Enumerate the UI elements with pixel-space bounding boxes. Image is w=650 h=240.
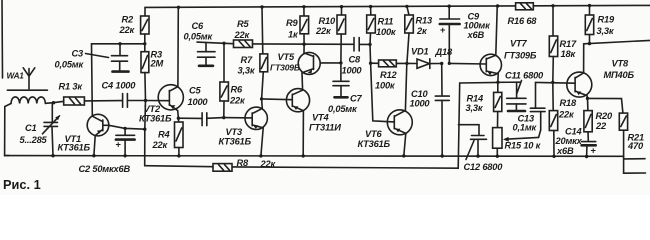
node R6 bottom / VT3 base (222, 116, 225, 119)
svg-text:R20: R20 (596, 111, 613, 121)
node R19 bottom on second rail (588, 42, 591, 45)
svg-text:ГТ309Б: ГТ309Б (270, 63, 300, 73)
node C6/R6/R5 (222, 42, 225, 45)
node R7 bottom / VT4 base / VT3 collector (260, 97, 263, 100)
resistor R2 22k (141, 16, 149, 34)
node R19 on top rail (588, 4, 591, 7)
svg-text:R17: R17 (560, 39, 577, 49)
svg-text:R14: R14 (467, 94, 484, 104)
svg-text:20мкх: 20мкх (555, 136, 583, 146)
node VT5 base / R10 / C7 (339, 61, 342, 64)
resistor R1 3k (horizontal) (64, 97, 85, 105)
node C10 top (440, 62, 443, 65)
node C1 bottom on rail (51, 154, 54, 157)
antenna WA1 (23, 68, 35, 76)
bottom common rail (5, 155, 624, 158)
node VT3 emitter on rail (259, 154, 262, 157)
resistor R19 3,3k (589, 6, 591, 15)
capacitor C12 6800 (458, 125, 479, 135)
svg-text:3,3к: 3,3к (466, 103, 484, 113)
node C10 bottom on rail (441, 154, 444, 157)
capacitor C5 1000 (series) (178, 117, 201, 119)
svg-text:R18: R18 (560, 98, 577, 108)
svg-text:R19: R19 (598, 15, 615, 25)
svg-text:R7: R7 (241, 55, 254, 65)
resistor R3 2M (141, 52, 149, 73)
wire VT4 base (262, 98, 293, 101)
node R7 column on top rail (260, 5, 263, 8)
transistor VT2 KT361B (158, 85, 183, 110)
svg-text:R13: R13 (416, 16, 433, 26)
resistor R4 22k (178, 118, 180, 122)
node R13 on top rail (405, 5, 408, 8)
svg-text:КТ361Б: КТ361Б (58, 143, 91, 153)
node VT2 emitter (177, 117, 180, 120)
node C2 bottom on rail (123, 154, 126, 157)
resistor R8 22k (horizontal) (213, 164, 232, 172)
svg-text:C1: C1 (25, 123, 37, 133)
svg-text:х6В: х6В (556, 146, 574, 156)
node C9 on top rail (448, 5, 451, 8)
svg-text:+: + (440, 25, 446, 35)
svg-text:2М: 2М (150, 59, 164, 69)
wire feedback up to VT2 base node (144, 101, 147, 166)
node C1 top (52, 101, 55, 104)
svg-text:22к: 22к (119, 25, 136, 35)
capacitor C14 20mk x 6V (582, 141, 596, 143)
svg-text:R6: R6 (231, 85, 244, 95)
diode VD1 D18 (407, 62, 417, 64)
node C2 tap (123, 127, 126, 130)
capacitor C13 0,1mk (series to VT8 base) (535, 82, 537, 107)
svg-text:х6В: х6В (467, 30, 485, 40)
svg-text:R12: R12 (380, 70, 397, 80)
resistor R6 22k (223, 43, 225, 82)
svg-text:2к: 2к (416, 26, 428, 36)
svg-text:R11: R11 (378, 17, 394, 27)
resistor R17 18k (552, 6, 554, 36)
svg-text:МП40Б: МП40Б (604, 70, 635, 80)
node VT1 emitter on rail (92, 154, 95, 157)
svg-text:5...285: 5...285 (20, 135, 48, 145)
svg-text:3,3к: 3,3к (238, 66, 256, 76)
capacitor C11 6800 to chassis (498, 81, 520, 83)
node VT6 base / R12 left (369, 62, 372, 65)
svg-text:VT4: VT4 (312, 113, 329, 123)
svg-text:C6: C6 (192, 21, 205, 31)
resistor R13 2k (407, 6, 409, 15)
capacitor C8 1000 (series) (353, 38, 355, 51)
node R18 bottom on rail (552, 155, 555, 158)
transistor VT3 KT361B (245, 107, 267, 129)
svg-text:КТ361Б: КТ361Б (358, 139, 391, 149)
svg-text:22к: 22к (558, 110, 575, 120)
svg-text:22к: 22к (234, 30, 251, 40)
capacitor C2 50mk x 6V (124, 128, 126, 134)
svg-text:VD1: VD1 (411, 47, 429, 57)
top supply rail (145, 5, 650, 16)
svg-text:ГТ311И: ГТ311И (309, 123, 341, 133)
node C3 on node A (118, 42, 121, 45)
node VT7 collector on top rail (496, 4, 499, 7)
resistor R20 22 (587, 98, 589, 110)
svg-text:R2: R2 (122, 15, 135, 25)
resistor R18 22k (552, 82, 554, 110)
wire R11/C8 down to VT6 base node (369, 44, 372, 63)
transistor VT6 KT361B (387, 110, 412, 135)
svg-text:C4 1000: C4 1000 (102, 81, 137, 91)
node R4 bottom on rail (177, 154, 180, 157)
svg-text:C7: C7 (350, 94, 363, 104)
svg-text:VT8: VT8 (612, 59, 629, 69)
svg-text:R1 3к: R1 3к (59, 82, 84, 92)
svg-text:0,05мк: 0,05мк (55, 60, 85, 70)
transistor VT7 GT309B (480, 54, 501, 75)
wire coil right to R1 (45, 101, 63, 103)
svg-text:100мк: 100мк (464, 21, 492, 31)
output stub lower right (624, 172, 646, 174)
resistor R14 3,3k (497, 82, 499, 92)
node C14 bottom on rail (585, 155, 588, 158)
capacitor C10 1000 (series, vertical) (441, 64, 443, 96)
svg-text:C10: C10 (411, 89, 428, 99)
svg-text:R9: R9 (286, 18, 299, 28)
svg-text:1000: 1000 (410, 99, 431, 109)
svg-text:VT6: VT6 (365, 129, 382, 139)
svg-text:C8: C8 (349, 55, 362, 65)
node R2/R3 on node A (143, 42, 146, 45)
svg-text:22: 22 (595, 121, 607, 131)
svg-text:0,05мк: 0,05мк (328, 104, 358, 114)
svg-text:R8: R8 (237, 158, 250, 168)
resistor R9 1k (303, 7, 305, 16)
node VT4 emitter on rail (302, 154, 305, 157)
node C12 bottom on rail (476, 154, 479, 157)
node VT8 emitter (586, 97, 589, 100)
feedback wire VT7 emitter to left and down (232, 82, 498, 168)
resistor R12 100k (horizontal) (371, 62, 379, 64)
resistor R21 470 (588, 98, 623, 113)
svg-text:R5: R5 (237, 19, 250, 29)
svg-text:22к: 22к (315, 26, 332, 36)
node VT1 base joins feedback column (143, 128, 146, 131)
svg-text:470: 470 (627, 141, 644, 151)
capacitor C7 0,05mk to chassis (340, 63, 342, 81)
svg-text:R15 10 к: R15 10 к (505, 141, 542, 151)
svg-text:100к: 100к (375, 81, 396, 91)
svg-text:1000: 1000 (342, 66, 363, 76)
node R9 on top rail (302, 5, 305, 8)
resistor R7 3,3k (260, 54, 268, 72)
node R17/R18 on VT8 base wire (551, 81, 554, 84)
node R9 bottom / VT5 collector (302, 43, 305, 46)
svg-text:22к: 22к (260, 159, 277, 169)
potentiometer R15 10k (493, 128, 502, 149)
svg-text:ГТ309Б: ГТ309Б (504, 51, 537, 61)
transistor VT4 GT311I (286, 89, 309, 112)
svg-text:КТ361Б: КТ361Б (219, 137, 252, 147)
node R17 on top rail (551, 4, 554, 7)
capacitor C4 1000 (series) (122, 94, 124, 108)
inductor L1 ferrite core line (7, 89, 47, 91)
svg-text:КТ361Б: КТ361Б (139, 114, 172, 124)
svg-text:1000: 1000 (188, 97, 209, 107)
svg-text:VT7: VT7 (510, 39, 527, 49)
svg-text:C5: C5 (189, 86, 202, 96)
capacitor C1 (variable) (51, 103, 53, 122)
svg-text:R4: R4 (158, 130, 171, 140)
svg-text:VT3: VT3 (226, 127, 243, 137)
svg-text:+: + (116, 140, 122, 150)
resistor R11 100k (370, 7, 372, 15)
svg-text:+: + (591, 146, 597, 156)
node VT2 base junction (144, 99, 147, 102)
svg-text:R10: R10 (319, 16, 336, 26)
wire top rail to R7 (crossing) (261, 7, 264, 54)
svg-text:0,1мк: 0,1мк (513, 123, 538, 133)
svg-text:R16 68: R16 68 (508, 16, 538, 26)
capacitor C9 100mk x 6V (448, 6, 450, 18)
svg-text:1к: 1к (288, 30, 299, 40)
node R11 bottom / C8 (368, 43, 371, 46)
svg-text:18к: 18к (561, 49, 577, 59)
svg-text:C11 6800: C11 6800 (505, 71, 544, 81)
output stub upper right (624, 158, 645, 160)
wire VT1 collector drop (91, 44, 94, 114)
svg-text:C12 6800: C12 6800 (464, 162, 504, 172)
resistor R10 22k (341, 7, 343, 15)
svg-text:22к: 22к (229, 96, 246, 106)
node VT7 emitter (496, 81, 499, 84)
transistor VT8 MP40B (567, 72, 592, 97)
wire coil left down to rail (5, 104, 11, 156)
svg-text:C2 50мкх6В: C2 50мкх6В (79, 164, 131, 174)
node VT2 collector on top rail (177, 6, 180, 9)
svg-text:VT5: VT5 (278, 52, 295, 62)
svg-text:C14: C14 (565, 127, 582, 137)
svg-text:100к: 100к (376, 27, 397, 37)
svg-text:Рис. 1: Рис. 1 (3, 177, 41, 192)
node R11 on top rail (369, 5, 372, 8)
transistor VT1 KT361B (87, 114, 109, 136)
resistor R5 22k (horizontal, series) (224, 42, 234, 44)
svg-text:0,05мк: 0,05мк (184, 32, 214, 42)
svg-text:22к: 22к (152, 140, 169, 150)
svg-text:Д18: Д18 (435, 47, 453, 57)
transistor VT5 GT309B (mirrored) (298, 52, 320, 74)
resistor R16 68 (series in top rail) (516, 3, 534, 10)
svg-text:WA1: WA1 (7, 72, 25, 81)
svg-text:C3: C3 (72, 49, 85, 59)
node VT6 emitter on rail (402, 154, 405, 157)
wire VT8 base (536, 81, 576, 84)
node R12 right / R13 / VD1 / VT6 collector (405, 62, 408, 65)
wire R1 to C4 (84, 100, 122, 102)
wire VT6 base drop (371, 63, 395, 122)
node R15 bottom on rail (496, 155, 499, 158)
wire VT7 base (449, 62, 486, 65)
capacitor C6 0,05mk to chassis (197, 42, 224, 43)
inductor L1 (11, 97, 45, 104)
capacitor C3 0,05mk to chassis (119, 44, 121, 55)
node C9 bottom / VT7 base wire (448, 62, 451, 65)
wire VT3 base (224, 117, 252, 119)
svg-text:3,3к: 3,3к (597, 26, 615, 36)
node R10 on top rail (340, 5, 343, 8)
wire node A horizontal (C3/R2 bias node) (92, 43, 145, 45)
second rail right (to output) (584, 40, 650, 43)
